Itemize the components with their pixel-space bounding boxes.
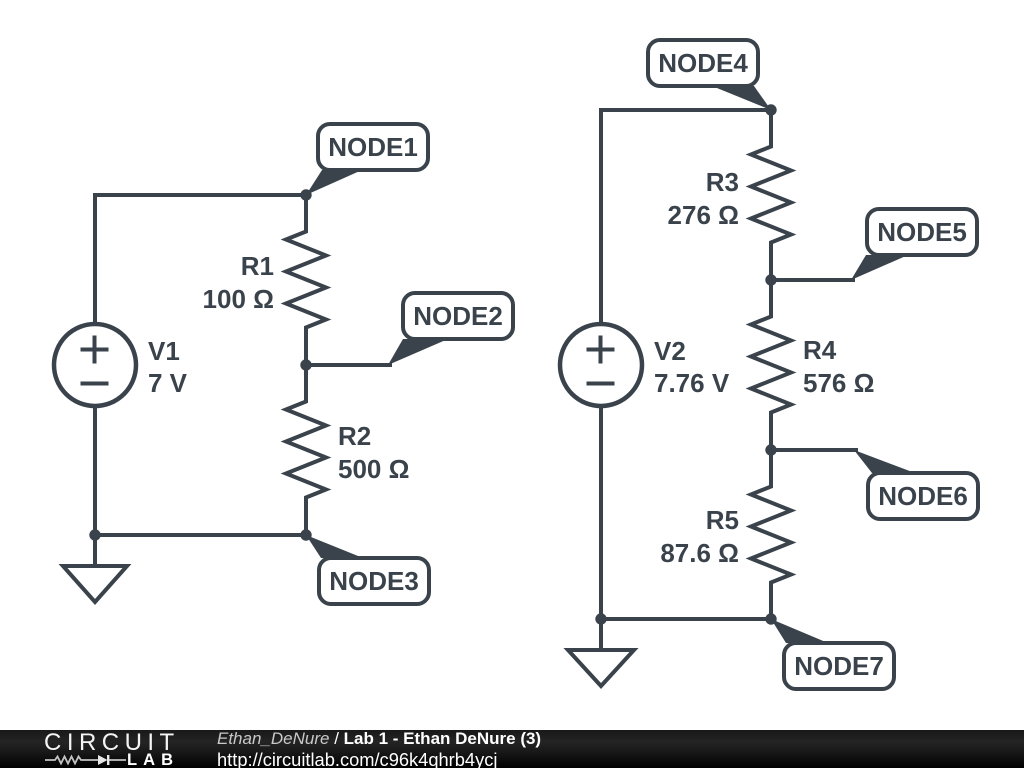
svg-text:576 Ω: 576 Ω	[803, 368, 874, 398]
svg-text:87.6 Ω: 87.6 Ω	[660, 538, 739, 568]
V2 minus sign	[587, 382, 615, 386]
ground right	[568, 650, 634, 686]
voltage source V2 circle	[560, 324, 642, 406]
svg-text:276 Ω: 276 Ω	[668, 200, 739, 230]
svg-text:100 Ω: 100 Ω	[203, 284, 274, 314]
wire bottom right	[601, 617, 771, 621]
svg-text:NODE7: NODE7	[794, 651, 884, 681]
node label NODE5	[851, 209, 977, 280]
svg-text:NODE1: NODE1	[328, 132, 418, 162]
svg-text:500 Ω: 500 Ω	[338, 454, 409, 484]
svg-text:R4: R4	[803, 335, 837, 365]
resistor R4 body	[751, 280, 791, 450]
svg-text:NODE3: NODE3	[329, 566, 419, 596]
junction node NODE1	[300, 189, 311, 200]
wire V2 bottom	[599, 406, 603, 650]
V2 plus sign	[587, 336, 615, 364]
url line	[217, 749, 497, 771]
node label NODE3	[306, 535, 429, 604]
V1 minus sign	[81, 382, 109, 386]
junction node NODE6	[765, 444, 776, 455]
wire node5 stub	[771, 278, 855, 282]
footer bar	[0, 730, 1024, 768]
svg-text:NODE4: NODE4	[658, 48, 748, 78]
V1 plus sign	[81, 336, 109, 364]
svg-text:NODE2: NODE2	[413, 301, 503, 331]
credit line	[217, 729, 541, 749]
resistor R1 body	[286, 195, 326, 365]
junction V1 ground	[89, 529, 100, 540]
svg-text:V2: V2	[654, 336, 686, 366]
node label NODE4	[648, 40, 771, 110]
svg-text:CIRCUIT: CIRCUIT	[44, 730, 180, 756]
svg-text:7 V: 7 V	[148, 368, 188, 398]
node label NODE7	[771, 619, 894, 689]
resistor R5 body	[751, 450, 791, 619]
wire V1 bottom to ground row	[93, 406, 97, 566]
ground left	[63, 566, 127, 602]
svg-text:R2: R2	[338, 421, 371, 451]
junction node NODE5	[765, 274, 776, 285]
resistor R3 body	[751, 110, 791, 280]
node label NODE6	[854, 450, 978, 519]
wire bottom left	[95, 533, 306, 537]
wire top left	[95, 195, 306, 325]
wire top right	[601, 110, 771, 325]
junction node NODE7	[765, 613, 776, 624]
resistor R2 body	[286, 365, 326, 535]
svg-text:LAB: LAB	[127, 751, 173, 768]
voltage source V1 circle	[54, 324, 136, 406]
svg-text:NODE5: NODE5	[877, 217, 967, 247]
junction node NODE4	[765, 104, 776, 115]
node label NODE1	[306, 124, 428, 195]
svg-text:V1: V1	[148, 336, 180, 366]
node label NODE2	[388, 293, 513, 365]
junction V2 ground	[595, 613, 606, 624]
svg-text:7.76 V: 7.76 V	[654, 368, 730, 398]
junction node NODE2	[300, 359, 311, 370]
svg-text:R5: R5	[706, 505, 739, 535]
junction node NODE3	[300, 529, 311, 540]
wire node2 stub	[306, 363, 392, 367]
svg-text:NODE6: NODE6	[878, 481, 968, 511]
wire node6 stub	[771, 448, 858, 452]
svg-text:R3: R3	[706, 167, 739, 197]
svg-text:R1: R1	[241, 251, 274, 281]
circuitlab logo	[40, 730, 180, 768]
